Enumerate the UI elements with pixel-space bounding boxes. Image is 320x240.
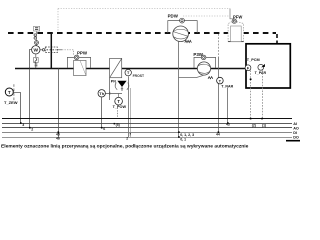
- junction tick: [109, 92, 111, 95]
- junction x58 terminals 45 46: [58, 131, 60, 133]
- wire W right: [40, 49, 42, 51]
- heater E1: [110, 58, 122, 77]
- wire PCM sensor2 down dashed: [262, 70, 264, 118]
- wire T_ZEW: [13, 93, 20, 124]
- fan PFW connector: [232, 19, 236, 23]
- junction T_POW terminal 5: [114, 123, 116, 125]
- pump PDW connector: [180, 18, 185, 23]
- wire T_FROST down: [128, 76, 130, 137]
- terminal line DO: [2, 136, 292, 138]
- svg-text:T_POW: T_POW: [113, 105, 127, 109]
- valve stem: [121, 87, 123, 91]
- sensor PCM T2 (with flag): [258, 64, 265, 70]
- svg-text:T_PAR: T_PAR: [255, 71, 267, 75]
- controller PCM box: [246, 44, 290, 88]
- svg-text:DI: DI: [293, 131, 297, 135]
- svg-text:6: 6: [103, 127, 105, 131]
- wire dotted boundary top horizontal: [58, 8, 230, 10]
- pump PPW connector: [74, 55, 79, 60]
- sensor T_FROST: [125, 69, 131, 75]
- wire P3W to PDW drop: [179, 75, 205, 77]
- wire PCM sensor1 down dashed: [250, 70, 252, 118]
- meter box M1: [34, 26, 40, 31]
- breaker F1: [34, 58, 39, 64]
- wire meter to plug: [36, 32, 38, 41]
- svg-text:(5): (5): [116, 123, 120, 127]
- dashed boundary corner down to PCM: [276, 34, 278, 44]
- wire Th right: [105, 93, 122, 95]
- terminal line AI-bus: [2, 118, 292, 120]
- svg-text:FROST: FROST: [133, 74, 145, 78]
- wire PFW drop: [230, 9, 234, 20]
- wire plug to W: [36, 45, 38, 46]
- wire breaker to bus: [35, 63, 37, 69]
- thermostat Th: [98, 90, 105, 97]
- breaker marks: [35, 64, 38, 66]
- svg-text:T: T: [117, 99, 120, 104]
- bold feeder vertical: [50, 34, 52, 69]
- svg-text:7: 7: [129, 132, 131, 136]
- wire T_NAR down: [227, 88, 229, 123]
- svg-text:DO: DO: [293, 136, 299, 140]
- svg-text:Elementy oznaczone linią przer: Elementy oznaczone linią przerywaną są o…: [1, 143, 249, 149]
- zigzag P3W: [208, 77, 213, 79]
- wire PDW down to terminals: [178, 41, 180, 137]
- wattmeter W: [32, 46, 40, 54]
- wire dotted boundary left vertical: [57, 9, 59, 33]
- svg-text:46: 46: [56, 136, 60, 140]
- svg-text:T_ZEW: T_ZEW: [4, 100, 18, 105]
- node small circle: [42, 49, 44, 51]
- svg-text:AI: AI: [293, 122, 297, 126]
- junction PCM sensor terminals: [250, 118, 252, 120]
- svg-text:T_PCM: T_PCM: [247, 58, 260, 62]
- svg-text:Th: Th: [99, 91, 104, 96]
- wire feeder x218: [218, 34, 220, 57]
- svg-text:T: T: [8, 90, 11, 95]
- pump P3W body: [197, 62, 210, 75]
- terminal line AI: [2, 122, 292, 124]
- sensor T_POW: [115, 97, 123, 105]
- wire W left down: [30, 50, 32, 69]
- svg-text:(1): (1): [262, 123, 266, 127]
- sensor PCM T1: [245, 65, 251, 71]
- wire bus drop x30: [29, 69, 31, 128]
- pump PPW body: [74, 60, 86, 75]
- junction x218 terminal 44: [218, 131, 220, 133]
- main bus: [15, 68, 246, 70]
- meter side glyphs: [34, 34, 36, 39]
- pump P3W connector: [201, 55, 206, 60]
- svg-text:AO: AO: [293, 126, 299, 130]
- junction PDW terminals 0123: [178, 131, 180, 133]
- terminal line DI: [2, 131, 292, 133]
- junction T_NAR terminal 43: [227, 122, 229, 124]
- wire bus drop x58: [58, 69, 60, 138]
- pump PPW bracket: [67, 57, 90, 68]
- fan PFW housing: [228, 22, 244, 42]
- junction T_ZEW terminal 3: [20, 122, 22, 124]
- svg-text:PN: PN: [111, 80, 116, 84]
- wire dotted PDW link: [183, 15, 230, 17]
- wire heater left leg: [109, 78, 111, 100]
- T_ZEW cable marks: [13, 84, 15, 100]
- pump PDW housing: [168, 21, 197, 33]
- bar right end: [286, 140, 300, 142]
- sensor T_NAR: [217, 77, 224, 84]
- wire T_POW down dashed: [117, 105, 119, 119]
- zigzag PDW: [185, 40, 192, 42]
- svg-text:(2): (2): [252, 123, 256, 127]
- junction Th terminal 6: [101, 127, 103, 129]
- pump P3W bracket: [194, 57, 216, 68]
- svg-text:0, 1, 2, 3: 0, 1, 2, 3: [180, 133, 194, 137]
- junction dot: [250, 78, 252, 80]
- svg-text:PDW: PDW: [168, 13, 179, 18]
- sensor T_ZEW: [5, 88, 13, 96]
- junction x30 terminal 2: [29, 127, 31, 129]
- svg-text:43: 43: [226, 123, 230, 127]
- wire T_POW stub: [118, 93, 120, 97]
- dashed boundary line (thick): [8, 32, 276, 34]
- wire W bottom: [35, 54, 37, 57]
- svg-text:3: 3: [22, 123, 24, 127]
- svg-text:PPW: PPW: [77, 50, 88, 55]
- svg-text:2: 2: [126, 137, 128, 141]
- svg-text:W: W: [34, 48, 39, 54]
- fan PDW: [173, 26, 189, 42]
- valve PN: [115, 81, 129, 90]
- svg-text:0, 1: 0, 1: [180, 137, 186, 141]
- connector plug small: [35, 41, 39, 45]
- svg-text:44: 44: [216, 133, 220, 137]
- terminal line AO: [2, 127, 292, 129]
- plug connector X1 (dashed, optional): [45, 47, 57, 53]
- wire plug to PPW: [57, 49, 62, 51]
- svg-text:2: 2: [31, 127, 33, 131]
- wire Th down to DI: [101, 97, 103, 128]
